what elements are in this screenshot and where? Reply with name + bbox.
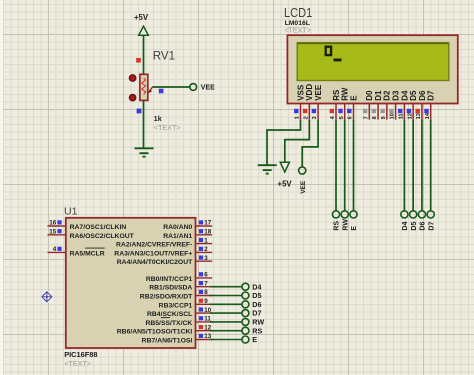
svg-text:10: 10 bbox=[204, 307, 211, 314]
svg-text:+5V: +5V bbox=[134, 13, 149, 22]
svg-text:RA4/AN4/T0CKI/C2OUT: RA4/AN4/T0CKI/C2OUT bbox=[117, 259, 193, 266]
svg-text:8: 8 bbox=[372, 116, 378, 119]
svg-text:11: 11 bbox=[204, 316, 211, 323]
svg-text:17: 17 bbox=[204, 220, 211, 227]
svg-text:+5V: +5V bbox=[278, 180, 293, 189]
svg-text:3: 3 bbox=[312, 116, 318, 119]
svg-text:U1: U1 bbox=[64, 205, 78, 217]
svg-text:7: 7 bbox=[204, 280, 208, 287]
svg-text:D3: D3 bbox=[392, 90, 401, 101]
svg-text:1: 1 bbox=[295, 116, 301, 119]
svg-text:VEE: VEE bbox=[314, 84, 323, 101]
svg-text:RB3/CCP1: RB3/CCP1 bbox=[159, 302, 193, 309]
svg-text:D4: D4 bbox=[252, 282, 261, 291]
svg-text:RS: RS bbox=[332, 89, 341, 101]
svg-text:7: 7 bbox=[363, 116, 369, 119]
svg-text:15: 15 bbox=[49, 229, 56, 236]
svg-text:D5: D5 bbox=[252, 291, 261, 300]
svg-text:D6: D6 bbox=[252, 300, 261, 309]
svg-text:RW: RW bbox=[252, 318, 264, 327]
svg-text:RA6/OSC2/CLKOUT: RA6/OSC2/CLKOUT bbox=[70, 233, 135, 240]
svg-text:10: 10 bbox=[390, 113, 396, 119]
svg-text:RB5/SS/TX/CK: RB5/SS/TX/CK bbox=[145, 320, 192, 327]
svg-text:E: E bbox=[252, 335, 257, 344]
svg-text:RA7/OSC1/CLKIN: RA7/OSC1/CLKIN bbox=[70, 224, 127, 231]
svg-text:13: 13 bbox=[416, 113, 422, 119]
svg-text:RS: RS bbox=[334, 221, 341, 231]
svg-text:14: 14 bbox=[425, 112, 431, 119]
svg-text:D0: D0 bbox=[365, 90, 374, 101]
svg-text:9: 9 bbox=[204, 298, 208, 305]
svg-text:D5: D5 bbox=[411, 222, 418, 231]
svg-text:D6: D6 bbox=[418, 90, 427, 101]
svg-text:18: 18 bbox=[204, 229, 211, 236]
svg-text:RB0/INT/CCP1: RB0/INT/CCP1 bbox=[146, 276, 193, 283]
svg-text:D6: D6 bbox=[420, 222, 427, 231]
svg-text:PIC16F88: PIC16F88 bbox=[64, 350, 97, 359]
svg-text:RB1/SDI/SDA: RB1/SDI/SDA bbox=[149, 285, 192, 292]
svg-text:8: 8 bbox=[204, 289, 208, 296]
svg-text:D5: D5 bbox=[409, 90, 418, 101]
svg-text:2: 2 bbox=[204, 246, 208, 253]
svg-text:E: E bbox=[349, 95, 358, 101]
svg-text:D1: D1 bbox=[374, 90, 383, 101]
svg-text:RS: RS bbox=[252, 326, 262, 335]
svg-text:13: 13 bbox=[204, 333, 211, 340]
svg-text:RA1/AN1: RA1/AN1 bbox=[163, 233, 192, 240]
svg-text:VSS: VSS bbox=[296, 84, 305, 101]
svg-text:RB2/SDO/RX/DT: RB2/SDO/RX/DT bbox=[140, 294, 193, 301]
svg-text:5: 5 bbox=[339, 116, 345, 119]
svg-text:12: 12 bbox=[204, 324, 211, 331]
svg-text:RV1: RV1 bbox=[153, 51, 175, 63]
svg-text:11: 11 bbox=[398, 113, 404, 119]
svg-text:LCD1: LCD1 bbox=[284, 5, 312, 20]
svg-text:6: 6 bbox=[348, 116, 354, 119]
svg-text:1: 1 bbox=[204, 237, 208, 244]
svg-text:VDD: VDD bbox=[305, 84, 314, 101]
svg-text:D7: D7 bbox=[428, 222, 435, 231]
svg-text:<TEXT>: <TEXT> bbox=[64, 359, 91, 368]
svg-text:D4: D4 bbox=[400, 90, 409, 101]
svg-text:4: 4 bbox=[330, 115, 336, 119]
svg-text:RA0/AN0: RA0/AN0 bbox=[163, 224, 192, 231]
svg-text:D4: D4 bbox=[402, 222, 409, 231]
svg-text:D7: D7 bbox=[252, 309, 261, 318]
svg-text:RA5/MCLR: RA5/MCLR bbox=[70, 250, 105, 257]
svg-text:3: 3 bbox=[204, 255, 208, 262]
svg-text:RB6/AN5/T1OSO/T1CKI: RB6/AN5/T1OSO/T1CKI bbox=[117, 329, 193, 336]
svg-text:E: E bbox=[351, 226, 358, 231]
svg-text:6: 6 bbox=[204, 272, 208, 279]
svg-text:16: 16 bbox=[49, 220, 56, 227]
svg-text:RB7/AN6/T1OSI: RB7/AN6/T1OSI bbox=[142, 338, 193, 345]
svg-text:2: 2 bbox=[303, 116, 309, 119]
svg-text:RA2/AN2/CVREF/VREF-: RA2/AN2/CVREF/VREF- bbox=[116, 242, 192, 249]
svg-text:RW: RW bbox=[342, 219, 349, 231]
svg-text:RB4/SCK/SCL: RB4/SCK/SCL bbox=[147, 311, 192, 318]
svg-text:RW: RW bbox=[341, 87, 350, 101]
svg-text:D2: D2 bbox=[383, 90, 392, 101]
svg-text:VEE: VEE bbox=[201, 85, 215, 92]
svg-text:D7: D7 bbox=[427, 90, 436, 101]
svg-text:<TEXT>: <TEXT> bbox=[154, 123, 181, 132]
svg-text:<TEXT>: <TEXT> bbox=[284, 25, 311, 34]
svg-text:4: 4 bbox=[53, 246, 57, 253]
svg-text:9: 9 bbox=[381, 116, 387, 119]
svg-text:RA3/AN3/C1OUT/VREF+: RA3/AN3/C1OUT/VREF+ bbox=[114, 250, 192, 257]
svg-text:12: 12 bbox=[407, 113, 413, 119]
svg-text:VEE: VEE bbox=[300, 180, 307, 194]
